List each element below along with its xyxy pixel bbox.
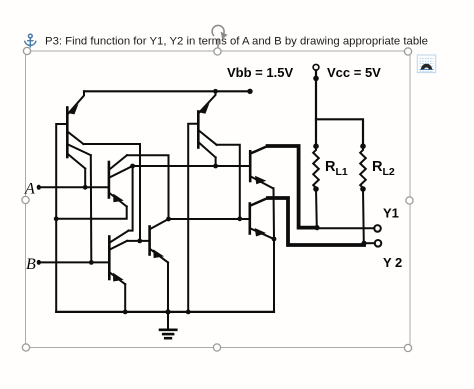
wire Q7 collector thick to Y2 node xyxy=(268,198,364,245)
node ground / QB emitter xyxy=(123,310,128,315)
svg-text:Y 2: Y 2 xyxy=(383,255,402,270)
wire Q1 collector2 down to B line xyxy=(90,155,93,262)
wire bus1 (base of Q5) xyxy=(133,165,251,167)
node Vbb terminal dot xyxy=(247,89,252,94)
wire Q1 base to ground rail xyxy=(56,124,67,312)
arrowhead Q2 emitter xyxy=(113,194,124,203)
svg-text:Vbb = 1.5V: Vbb = 1.5V xyxy=(227,65,293,80)
wire Q6 emitter down to ground xyxy=(273,188,276,312)
wire Y1 lead to terminal xyxy=(317,227,374,229)
node A-line / Q1 c3 junction xyxy=(83,185,88,190)
anchor icon xyxy=(25,34,36,47)
svg-text:P3: Find function for Y1, Y2 i: P3: Find function for Y1, Y2 in terms of… xyxy=(45,36,428,48)
wire Q5 collector2 up to bus1 xyxy=(129,166,133,231)
transistor Q6 (NOR output driver) xyxy=(249,151,252,181)
node Y1 junction xyxy=(314,225,319,230)
arrowhead Q6 emitter xyxy=(255,176,266,185)
transistor Q3 injector (top-middle) xyxy=(197,112,200,148)
svg-text:Vcc = 5V: Vcc = 5V xyxy=(327,65,381,80)
node B dot xyxy=(37,260,41,265)
node Q6/Q7 emitters junction xyxy=(272,237,277,242)
terminal Y1 open circle xyxy=(374,225,381,232)
node Y2 junction xyxy=(361,241,366,246)
node node2 left junction xyxy=(166,217,171,222)
wire RL2 bottom to Y2 xyxy=(362,189,365,243)
selection handles xyxy=(22,47,413,351)
wire Q4 base line xyxy=(127,240,150,242)
node ground / Q1 base corner xyxy=(54,216,59,221)
wire Y2 lead to terminal xyxy=(364,242,375,244)
wire Q3 base to ground rail xyxy=(188,124,198,312)
wire node2 (base of Q6) xyxy=(169,218,250,220)
terminal Vcc open circle xyxy=(313,64,319,70)
node RL2 top xyxy=(360,143,366,149)
arrowhead Q3 emitter xyxy=(200,103,210,114)
wire Vbb top rail xyxy=(84,90,250,92)
node ground / Q3 base xyxy=(186,310,191,315)
arrowhead Q7 emitter xyxy=(255,228,266,237)
node Q4 base / Q1 c1 junction xyxy=(137,239,142,244)
resistor RL1 xyxy=(313,146,319,189)
transistor Q5 (QB input B) xyxy=(108,237,111,280)
arrowhead Q1 emitter xyxy=(69,104,79,115)
node Vcc dot xyxy=(313,76,319,82)
node RL1 bottom xyxy=(313,186,319,192)
selection rectangle edges xyxy=(26,51,411,348)
wire Q6 collector thick to Y1 node xyxy=(268,146,317,228)
wire Q2 collector1 to node2 xyxy=(127,155,169,219)
svg-text:B: B xyxy=(26,256,36,273)
node bus1 / Q2 c2 junction xyxy=(130,164,135,169)
node node2 / Q3 c1 junction xyxy=(237,216,242,221)
wire Vcc feed xyxy=(315,70,317,146)
node Q3 emitter on rail xyxy=(213,89,218,94)
node B-line / Q1 c2 junction xyxy=(89,260,94,265)
node A dot xyxy=(37,185,41,190)
arrowhead Q4 emitter xyxy=(153,249,164,258)
resistor RL2 xyxy=(360,146,366,189)
rotate handle xyxy=(212,25,227,48)
svg-text:Y1: Y1 xyxy=(383,206,399,221)
ground symbol xyxy=(167,312,169,329)
transistor Q7 (lower output driver) xyxy=(249,204,252,234)
arrowhead Q5 emitter xyxy=(113,273,124,282)
wire Q1 collector1 down to Q4 base node xyxy=(83,144,140,241)
transistor Q4 (middle) xyxy=(148,227,151,255)
wire Q3 collector2 to bus1 xyxy=(215,157,217,166)
node ground / Q4 emitter xyxy=(165,309,170,314)
wire Q5 emitter to ground xyxy=(124,284,126,312)
wire Q4 emitter to ground xyxy=(167,263,169,312)
wire Q3 collector1 to Q6 base node xyxy=(217,145,240,219)
wire Q2 emitter to ground vertical xyxy=(56,207,127,219)
node bus1 / Q3 c2 junction xyxy=(213,164,218,169)
transistor Q2 (QA input A) xyxy=(108,162,111,198)
wire Q1 collector3 down to A line xyxy=(84,169,86,188)
node RL2 bottom xyxy=(360,186,366,192)
node RL1 top xyxy=(313,143,319,149)
transistor Q1 multi-collector injector (top-left) xyxy=(66,108,69,158)
svg-text:A: A xyxy=(24,181,35,198)
wire RL1 bottom to Y1 xyxy=(315,189,318,228)
wire ground rail xyxy=(56,311,274,313)
layout options button xyxy=(417,55,435,73)
node A input line xyxy=(39,186,109,188)
node B input line xyxy=(39,261,110,263)
terminal Y2 open circle xyxy=(375,240,382,247)
